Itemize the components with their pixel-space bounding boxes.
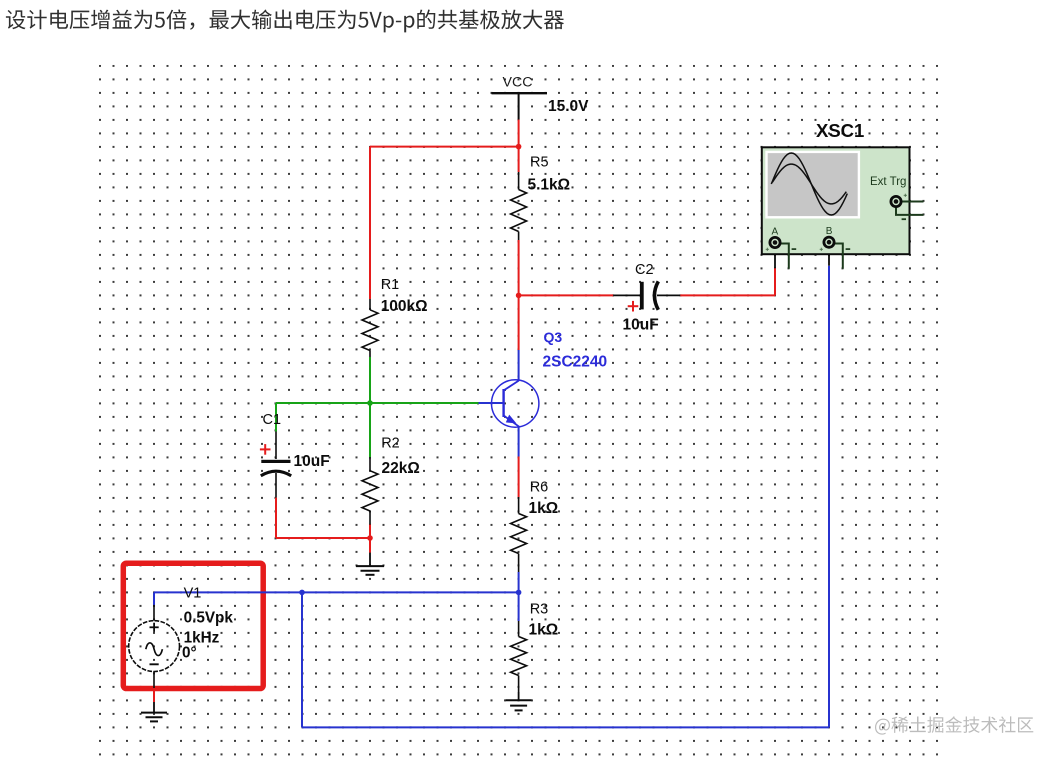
svg-text:B: B [826, 226, 833, 237]
svg-text:1kΩ: 1kΩ [529, 622, 559, 639]
svg-text:C1: C1 [263, 412, 282, 428]
svg-text:C2: C2 [635, 262, 654, 278]
svg-text:15.0V: 15.0V [548, 98, 589, 115]
svg-text:XSC1: XSC1 [816, 120, 864, 141]
svg-text:Q3: Q3 [544, 329, 563, 345]
svg-text:R6: R6 [530, 480, 549, 496]
svg-text:10uF: 10uF [623, 317, 659, 334]
svg-text:5.1kΩ: 5.1kΩ [528, 177, 571, 194]
svg-text:Ext Trg: Ext Trg [870, 176, 906, 188]
svg-text:100kΩ: 100kΩ [381, 298, 428, 315]
svg-text:V1: V1 [184, 586, 202, 602]
svg-text:R2: R2 [381, 436, 400, 452]
svg-text:0.5Vpk: 0.5Vpk [184, 610, 234, 627]
svg-text:0°: 0° [182, 645, 197, 662]
svg-text:R1: R1 [381, 277, 400, 293]
svg-text:R3: R3 [530, 602, 549, 618]
svg-text:A: A [772, 227, 779, 238]
svg-text:VCC: VCC [503, 75, 533, 91]
svg-text:1kΩ: 1kΩ [529, 500, 559, 517]
svg-text:10uF: 10uF [294, 453, 330, 470]
svg-text:22kΩ: 22kΩ [382, 460, 420, 477]
svg-text:R5: R5 [530, 155, 549, 171]
svg-text:2SC2240: 2SC2240 [543, 354, 608, 371]
